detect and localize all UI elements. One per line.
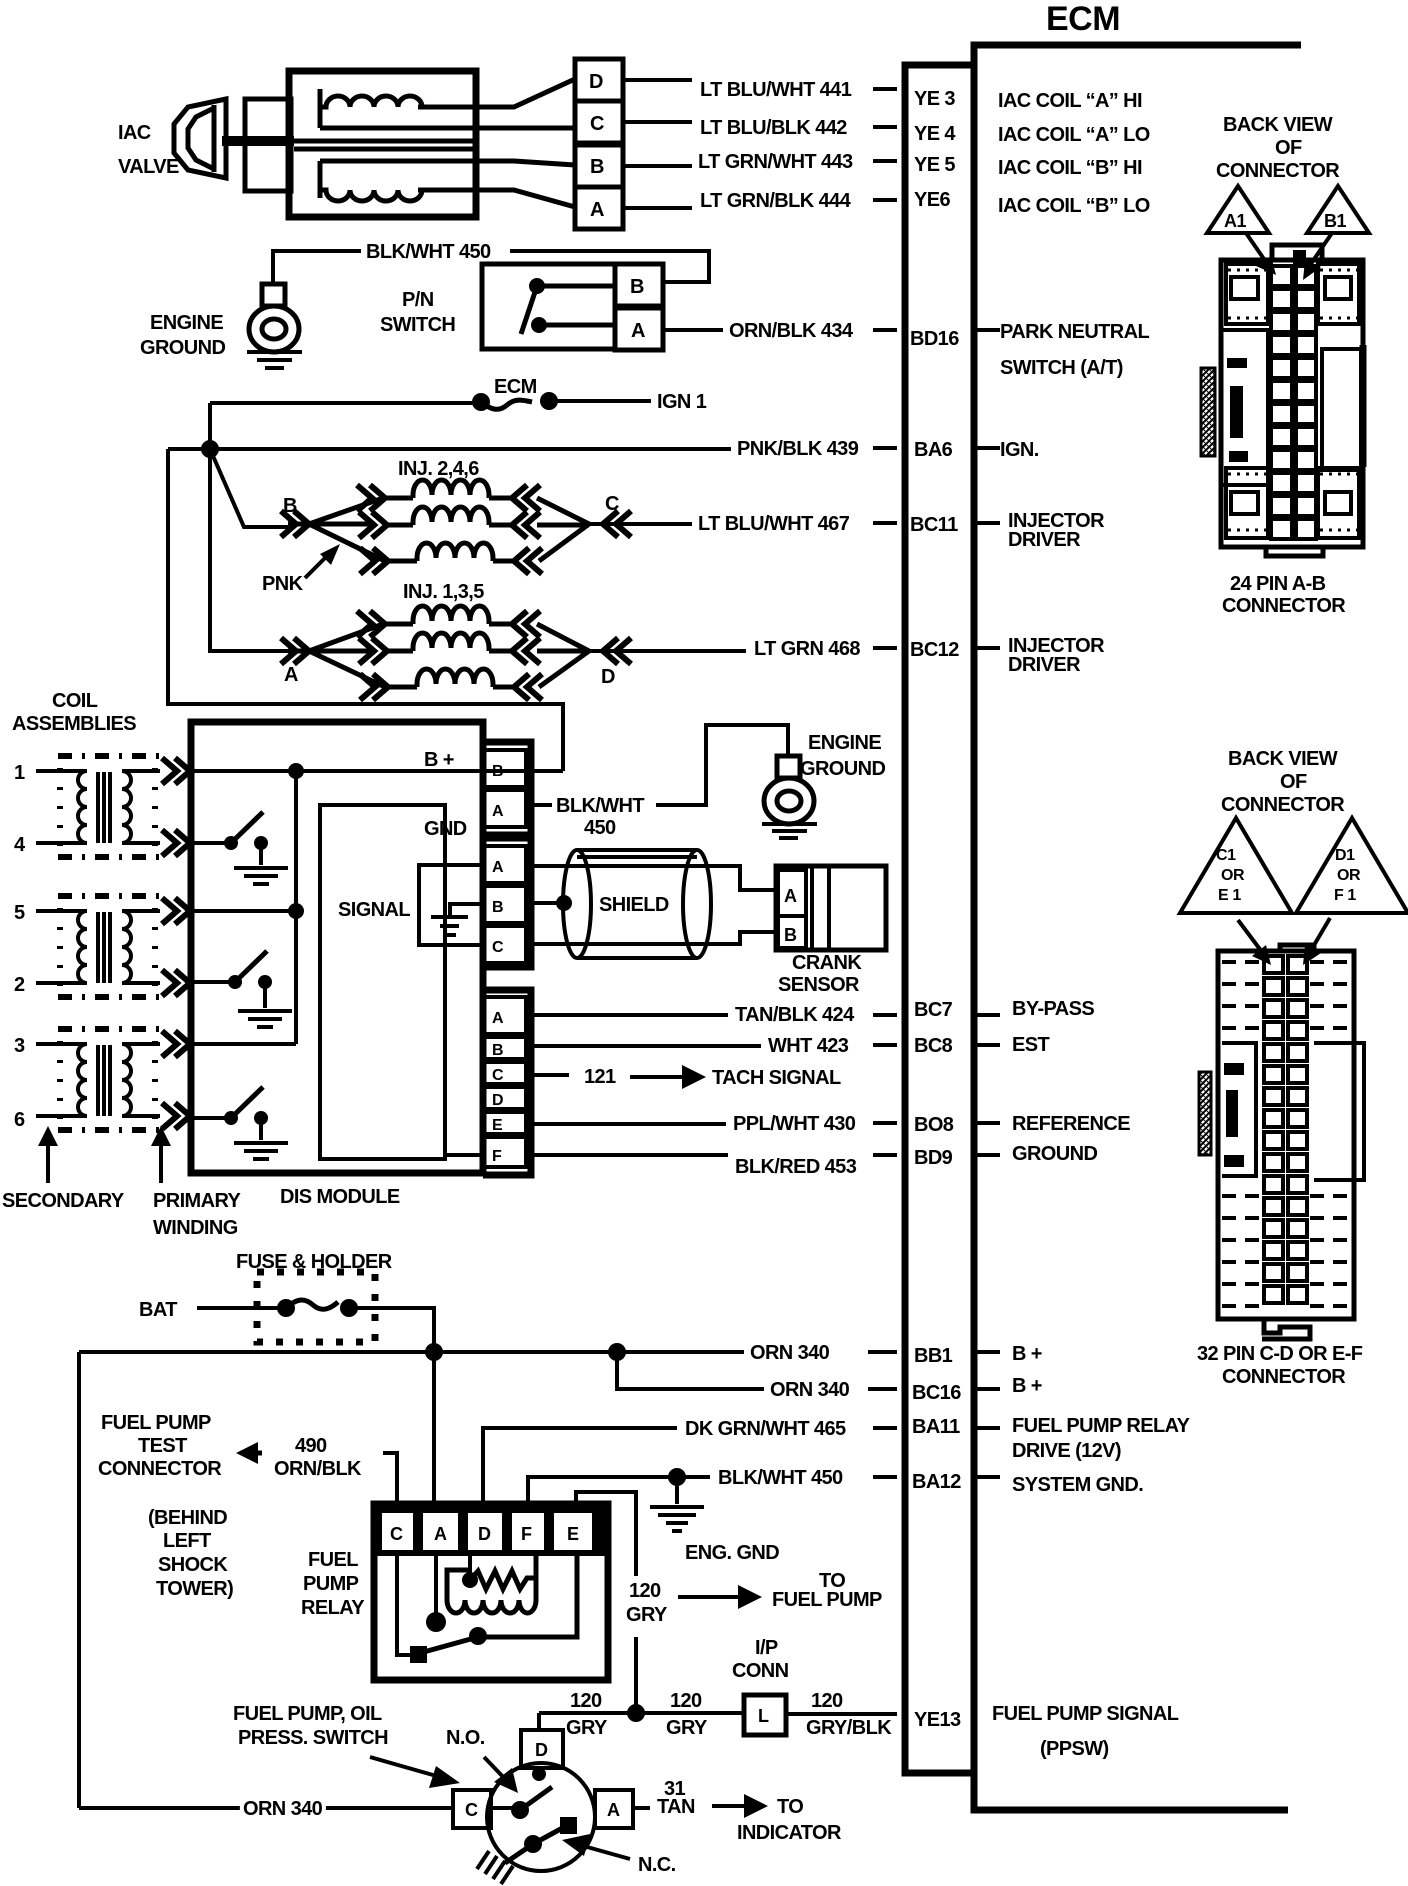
svg-text:F: F xyxy=(521,1524,532,1544)
svg-text:DRIVER: DRIVER xyxy=(1008,654,1081,676)
wire C xyxy=(476,126,575,131)
svg-text:PUMP: PUMP xyxy=(303,1573,359,1595)
wire ORN 340 to BB1 xyxy=(79,1350,897,1354)
svg-text:TAN/BLK 424: TAN/BLK 424 xyxy=(735,1004,855,1026)
svg-text:LT GRN/WHT 443: LT GRN/WHT 443 xyxy=(698,151,853,173)
secondary winding xyxy=(78,771,87,843)
transformer coil 1-4 xyxy=(14,756,190,857)
svg-text:L: L xyxy=(758,1706,769,1726)
svg-text:BAT: BAT xyxy=(139,1299,177,1321)
wire LT BLU/WHT 441 xyxy=(623,80,897,89)
svg-text:N.O.: N.O. xyxy=(446,1727,485,1749)
svg-text:A: A xyxy=(284,664,298,686)
svg-text:ORN 340: ORN 340 xyxy=(243,1798,323,1820)
GND inner small box xyxy=(419,865,483,945)
svg-text:D1: D1 xyxy=(1335,847,1355,864)
svg-text:VALVE: VALVE xyxy=(118,156,179,178)
top branch xyxy=(357,485,385,511)
svg-text:GRY: GRY xyxy=(666,1717,708,1739)
svg-text:ORN/BLK: ORN/BLK xyxy=(274,1458,362,1480)
svg-text:SHIELD: SHIELD xyxy=(599,894,669,916)
svg-text:IGN 1: IGN 1 xyxy=(657,391,707,413)
svg-text:GROUND: GROUND xyxy=(140,337,225,359)
A box xyxy=(595,1790,633,1828)
relay interior: switch arm xyxy=(420,1637,478,1653)
svg-text:24 PIN A-B: 24 PIN A-B xyxy=(1230,573,1326,595)
svg-text:ORN 340: ORN 340 xyxy=(770,1379,850,1401)
svg-text:ENGINE: ENGINE xyxy=(150,312,223,334)
fuel pump relay box xyxy=(374,1504,608,1680)
svg-text:B: B xyxy=(630,276,644,298)
primary winding xyxy=(122,771,131,843)
svg-text:YE 5: YE 5 xyxy=(914,154,955,176)
svg-text:B: B xyxy=(784,925,797,945)
pressure switch circle xyxy=(487,1763,595,1871)
fuse & holder dotted box xyxy=(257,1272,375,1342)
svg-text:TACH SIGNAL: TACH SIGNAL xyxy=(712,1067,841,1089)
svg-text:4: 4 xyxy=(14,834,26,856)
svg-text:SENSOR: SENSOR xyxy=(778,974,860,996)
svg-text:32 PIN C-D OR E-F: 32 PIN C-D OR E-F xyxy=(1197,1343,1363,1365)
engine ground symbol 1 xyxy=(262,284,285,306)
ECM box outline xyxy=(974,45,1301,1810)
svg-text:120: 120 xyxy=(570,1690,602,1712)
wire WHT 423 xyxy=(526,1045,897,1046)
hatched strip xyxy=(1201,368,1215,456)
svg-text:D: D xyxy=(601,666,615,688)
svg-text:BC7: BC7 xyxy=(914,999,953,1021)
middle branch xyxy=(359,512,387,538)
wire A to 31 TAN xyxy=(633,1806,650,1810)
relay resistor zigzag xyxy=(470,1571,535,1589)
svg-text:BD16: BD16 xyxy=(910,328,959,350)
svg-text:SIGNAL: SIGNAL xyxy=(338,899,410,921)
relay interior: A contact xyxy=(434,1556,438,1616)
DIS pins B/A group xyxy=(483,742,531,835)
triangle A1 xyxy=(1207,186,1269,233)
svg-text:BACK VIEW: BACK VIEW xyxy=(1223,114,1333,136)
svg-text:450: 450 xyxy=(584,817,616,839)
B+ bus vertical xyxy=(191,771,296,1044)
relay interior: coil D-F xyxy=(468,1552,472,1578)
IAC connector box D xyxy=(575,59,623,101)
svg-text:LT BLU/WHT 441: LT BLU/WHT 441 xyxy=(700,79,852,101)
switch N.C. contact xyxy=(524,1835,542,1853)
svg-text:5: 5 xyxy=(14,902,25,924)
wire LT GRN 468 xyxy=(589,648,897,651)
wire left vertical B+ loop xyxy=(168,449,563,771)
svg-text:D: D xyxy=(535,1740,548,1760)
svg-text:A1: A1 xyxy=(1224,211,1246,231)
svg-text:OR: OR xyxy=(1221,867,1245,884)
svg-text:C: C xyxy=(492,939,504,956)
right side block xyxy=(1322,349,1361,470)
svg-text:DRIVER: DRIVER xyxy=(1008,529,1081,551)
svg-text:BLK/WHT 450: BLK/WHT 450 xyxy=(366,241,491,263)
svg-text:YE 4: YE 4 xyxy=(914,123,956,145)
DIS pins A-F group xyxy=(483,990,531,1175)
svg-text:LEFT: LEFT xyxy=(163,1530,211,1552)
svg-text:DIS MODULE: DIS MODULE xyxy=(280,1186,400,1208)
svg-text:BB1: BB1 xyxy=(914,1345,953,1367)
svg-text:121: 121 xyxy=(584,1066,616,1088)
left rail vertical xyxy=(77,1352,81,1808)
IAC connector box B xyxy=(575,145,623,187)
wire B xyxy=(476,161,575,165)
wire relay A up to ORN340 xyxy=(432,1352,436,1506)
center pin columns xyxy=(1271,266,1316,539)
bottom foot xyxy=(1262,1319,1310,1339)
svg-text:GRY: GRY xyxy=(566,1717,608,1739)
svg-text:ECM: ECM xyxy=(494,376,537,398)
D box xyxy=(521,1730,563,1768)
svg-text:OF: OF xyxy=(1275,137,1302,159)
svg-text:120: 120 xyxy=(811,1690,843,1712)
wire crank B shield drain xyxy=(531,901,562,905)
svg-text:N.C.: N.C. xyxy=(638,1854,676,1876)
svg-text:D: D xyxy=(492,1092,503,1109)
svg-text:BC11: BC11 xyxy=(910,514,958,536)
svg-text:ASSEMBLIES: ASSEMBLIES xyxy=(12,713,136,735)
svg-text:ORN 340: ORN 340 xyxy=(750,1342,830,1364)
svg-text:IAC COIL “A” HI: IAC COIL “A” HI xyxy=(998,90,1142,112)
svg-text:OR: OR xyxy=(1337,867,1361,884)
wire BLK/WHT 450 xyxy=(273,251,709,286)
svg-text:BC12: BC12 xyxy=(910,639,959,661)
24-pin connector body xyxy=(1201,245,1363,556)
wire 121 TACH SIGNAL xyxy=(531,1073,569,1077)
wire PNK/BLK 439 xyxy=(168,403,897,449)
svg-text:B: B xyxy=(492,899,503,916)
svg-text:FUEL: FUEL xyxy=(308,1549,358,1571)
core xyxy=(98,772,110,843)
wire BLK/WHT 450 to engine ground 2 xyxy=(531,725,788,805)
wire BAT through fuse xyxy=(197,1308,434,1352)
svg-text:OF: OF xyxy=(1280,771,1307,793)
svg-text:PRIMARY: PRIMARY xyxy=(153,1190,242,1212)
svg-text:LT BLU/WHT 467: LT BLU/WHT 467 xyxy=(698,513,850,535)
svg-text:FUEL PUMP, OIL: FUEL PUMP, OIL xyxy=(233,1703,382,1725)
svg-text:PNK/BLK 439: PNK/BLK 439 xyxy=(737,438,859,460)
IAC upper coil channel line xyxy=(320,126,476,131)
IAC valve cone xyxy=(174,99,226,178)
dash-dot border xyxy=(58,756,159,857)
svg-text:BA6: BA6 xyxy=(914,439,953,461)
injector group INJ. 2,4,6 xyxy=(281,458,631,574)
N.C. label with arrow xyxy=(580,1845,630,1859)
switch N.O. contact xyxy=(511,1801,529,1819)
transformer coil 3-6 xyxy=(36,1029,190,1130)
svg-text:TO: TO xyxy=(777,1796,803,1818)
svg-text:SWITCH: SWITCH xyxy=(380,314,455,336)
svg-text:D: D xyxy=(589,71,603,93)
svg-text:BC8: BC8 xyxy=(914,1035,953,1057)
svg-text:A: A xyxy=(492,859,504,876)
DIS pins A/B/C group xyxy=(483,838,531,967)
IAC lower coil xyxy=(320,161,422,201)
svg-text:GROUND: GROUND xyxy=(1012,1143,1097,1165)
svg-text:BA11: BA11 xyxy=(912,1416,960,1438)
svg-text:B +: B + xyxy=(1012,1343,1042,1365)
wire PPL/WHT 430 xyxy=(526,1123,897,1124)
svg-text:B: B xyxy=(492,763,503,780)
svg-text:ORN/BLK 434: ORN/BLK 434 xyxy=(729,320,854,342)
svg-text:B1: B1 xyxy=(1324,211,1346,231)
svg-text:GRY: GRY xyxy=(626,1604,668,1626)
svg-text:IAC: IAC xyxy=(118,122,151,144)
svg-text:BD9: BD9 xyxy=(914,1147,953,1169)
svg-text:IAC COIL “A” LO: IAC COIL “A” LO xyxy=(998,124,1150,146)
TO FUEL PUMP arrow xyxy=(678,1595,742,1599)
svg-text:I/P: I/P xyxy=(755,1637,778,1659)
svg-text:C1: C1 xyxy=(1216,847,1236,864)
svg-text:INJ. 2,4,6: INJ. 2,4,6 xyxy=(398,458,479,480)
switch 1 xyxy=(191,841,231,845)
svg-text:E: E xyxy=(567,1524,579,1544)
svg-text:A: A xyxy=(631,320,645,342)
svg-text:CONNECTOR: CONNECTOR xyxy=(1221,794,1345,816)
hatched strip xyxy=(1199,1072,1211,1155)
svg-text:1: 1 xyxy=(14,762,25,784)
junction IGN/PNK xyxy=(201,440,219,458)
wire TAN/BLK 424 xyxy=(526,1013,897,1017)
svg-text:SYSTEM GND.: SYSTEM GND. xyxy=(1012,1474,1143,1496)
svg-text:C: C xyxy=(492,1067,504,1084)
svg-text:FUEL PUMP SIGNAL: FUEL PUMP SIGNAL xyxy=(992,1703,1179,1725)
svg-text:2: 2 xyxy=(14,974,25,996)
svg-text:ECM: ECM xyxy=(1046,0,1120,38)
svg-text:LT BLU/BLK 442: LT BLU/BLK 442 xyxy=(700,117,847,139)
svg-text:IGN.: IGN. xyxy=(1000,439,1039,461)
svg-text:B +: B + xyxy=(1012,1375,1042,1397)
wire LT BLU/BLK 442 xyxy=(623,122,897,127)
C box xyxy=(453,1790,491,1828)
svg-text:FUEL PUMP RELAY: FUEL PUMP RELAY xyxy=(1012,1415,1191,1437)
wire ORN 340 to BC16 xyxy=(617,1352,897,1389)
svg-text:CONNECTOR: CONNECTOR xyxy=(1222,1366,1346,1388)
relay pin header bar xyxy=(374,1501,608,1556)
svg-text:TEST: TEST xyxy=(138,1435,187,1457)
svg-text:BC16: BC16 xyxy=(912,1382,961,1404)
relay interior: E leg xyxy=(478,1556,577,1637)
svg-text:GROUND: GROUND xyxy=(800,758,885,780)
svg-text:C: C xyxy=(590,113,604,135)
shield cylinder xyxy=(577,850,697,958)
svg-text:TOWER): TOWER) xyxy=(156,1578,233,1600)
svg-text:PPL/WHT 430: PPL/WHT 430 xyxy=(733,1113,856,1135)
relay coil xyxy=(447,1552,536,1600)
svg-text:ENG. GND: ENG. GND xyxy=(685,1542,779,1564)
svg-text:INDICATOR: INDICATOR xyxy=(737,1822,842,1844)
wire BLK/WHT 450 to BA12 xyxy=(528,1477,897,1504)
svg-text:SHOCK: SHOCK xyxy=(158,1554,228,1576)
svg-text:B +: B + xyxy=(424,749,454,771)
svg-text:BA12: BA12 xyxy=(912,1471,961,1493)
svg-text:BY-PASS: BY-PASS xyxy=(1012,998,1094,1020)
svg-text:SECONDARY: SECONDARY xyxy=(2,1190,125,1212)
svg-text:TAN: TAN xyxy=(657,1796,695,1818)
transformer coil 5-2 xyxy=(36,896,190,997)
relay interior: C leg xyxy=(397,1556,413,1655)
svg-text:CONNECTOR: CONNECTOR xyxy=(1216,160,1340,182)
IAC connector box A xyxy=(575,187,623,229)
svg-text:PRESS. SWITCH: PRESS. SWITCH xyxy=(238,1727,388,1749)
triangle C1/E1 xyxy=(1180,818,1292,913)
svg-text:REFERENCE: REFERENCE xyxy=(1012,1113,1130,1135)
svg-text:C: C xyxy=(390,1524,403,1544)
svg-text:EST: EST xyxy=(1012,1034,1049,1056)
svg-text:A: A xyxy=(784,886,797,906)
P/N connector box A xyxy=(615,308,663,350)
svg-text:BLK/WHT 450: BLK/WHT 450 xyxy=(718,1467,843,1489)
IAC valve shaft xyxy=(222,136,294,146)
svg-text:B: B xyxy=(492,1042,503,1059)
svg-text:PNK: PNK xyxy=(262,573,304,595)
wire A xyxy=(418,190,575,207)
svg-text:RELAY: RELAY xyxy=(301,1597,365,1619)
svg-text:WHT 423: WHT 423 xyxy=(768,1035,849,1057)
svg-text:PARK NEUTRAL: PARK NEUTRAL xyxy=(1000,321,1149,343)
svg-text:IAC COIL “B” HI: IAC COIL “B” HI xyxy=(998,157,1142,179)
wire D up to 120 GRY xyxy=(537,1713,541,1730)
wire L to YE13 xyxy=(786,1712,897,1716)
crank sensor connector xyxy=(776,866,886,950)
middle left details xyxy=(1221,330,1268,485)
svg-text:120: 120 xyxy=(629,1580,661,1602)
triangle D1/F1 xyxy=(1296,818,1408,913)
svg-text:F: F xyxy=(492,1148,502,1165)
svg-text:GRY/BLK: GRY/BLK xyxy=(806,1717,892,1739)
svg-text:6: 6 xyxy=(14,1109,25,1131)
right apex chevron xyxy=(603,511,631,537)
wire 120 GRY junction to L xyxy=(539,1711,744,1715)
svg-text:BLK/RED 453: BLK/RED 453 xyxy=(735,1156,857,1178)
svg-text:A: A xyxy=(434,1524,447,1544)
svg-text:A: A xyxy=(492,803,504,820)
svg-text:120: 120 xyxy=(670,1690,702,1712)
svg-text:CRANK: CRANK xyxy=(792,952,862,974)
left arrow xyxy=(243,1451,262,1456)
wire crank C xyxy=(531,932,778,944)
svg-text:C: C xyxy=(465,1800,478,1820)
svg-text:ENGINE: ENGINE xyxy=(808,732,881,754)
wire LT BLU/WHT 467 xyxy=(589,523,897,524)
switch 2 xyxy=(191,980,235,984)
middle left block xyxy=(1222,1043,1256,1176)
svg-text:F 1: F 1 xyxy=(1334,887,1356,904)
dashes top left/right xyxy=(1222,962,1350,1306)
svg-text:(BEHIND: (BEHIND xyxy=(148,1507,227,1529)
wire BLK/RED 453 xyxy=(445,1153,897,1157)
svg-text:A: A xyxy=(590,199,604,221)
svg-text:WINDING: WINDING xyxy=(153,1217,238,1239)
P/N switch contacts xyxy=(529,278,545,294)
I/P connector box L xyxy=(744,1695,786,1735)
svg-text:LT GRN/BLK 444: LT GRN/BLK 444 xyxy=(700,190,852,212)
svg-text:LT GRN 468: LT GRN 468 xyxy=(754,638,860,660)
wire LT GRN/WHT 443 xyxy=(623,161,897,166)
wire coil D xyxy=(418,79,575,107)
svg-text:B: B xyxy=(590,156,604,178)
svg-text:A: A xyxy=(492,1010,504,1027)
IAC lower coil channel line xyxy=(320,159,476,164)
center pin columns xyxy=(1264,956,1307,1303)
svg-text:SWITCH (A/T): SWITCH (A/T) xyxy=(1000,357,1123,379)
wire 490 to relay C xyxy=(383,1453,397,1506)
svg-text:BLK/WHT: BLK/WHT xyxy=(556,795,644,817)
DIS module box xyxy=(191,722,483,1173)
IAC connector box C xyxy=(575,101,623,143)
svg-text:E 1: E 1 xyxy=(1218,887,1241,904)
svg-text:COIL: COIL xyxy=(52,690,98,712)
wire E to 120 GRY vertical xyxy=(576,1492,636,1713)
svg-text:490: 490 xyxy=(295,1435,327,1457)
IAC center pole bars xyxy=(226,141,476,149)
triangle arrows 2 xyxy=(1238,920,1262,952)
left apex lines xyxy=(288,498,385,561)
hatching xyxy=(477,1851,513,1884)
svg-text:3: 3 xyxy=(14,1035,25,1057)
svg-text:P/N: P/N xyxy=(402,289,434,311)
ECM pin column xyxy=(905,65,974,1773)
bottom branch xyxy=(360,548,388,574)
P/N connector box B xyxy=(615,264,663,306)
wire crank A xyxy=(531,866,778,890)
wire IGN 1 with ECM fuse xyxy=(210,401,651,403)
svg-text:YE 3: YE 3 xyxy=(914,88,955,110)
svg-text:BACK VIEW: BACK VIEW xyxy=(1228,748,1338,770)
wire ORN 340 bottom xyxy=(79,1806,453,1810)
switch 3 xyxy=(191,1116,231,1120)
IAC valve body large rect xyxy=(289,71,476,217)
svg-text:FUEL PUMP: FUEL PUMP xyxy=(772,1589,882,1611)
svg-text:YE13: YE13 xyxy=(914,1709,961,1731)
svg-text:(PPSW): (PPSW) xyxy=(1040,1738,1109,1760)
wire from junction to injector B apex xyxy=(210,449,288,527)
svg-text:E: E xyxy=(492,1117,503,1134)
wire vertical to injector A apex xyxy=(210,449,288,651)
svg-text:BO8: BO8 xyxy=(914,1114,954,1136)
P/N switch box xyxy=(482,264,615,349)
IAC upper coil xyxy=(320,89,422,128)
svg-text:DRIVE (12V): DRIVE (12V) xyxy=(1012,1440,1121,1462)
svg-text:CONNECTOR: CONNECTOR xyxy=(98,1458,222,1480)
triangle arrows xyxy=(1246,233,1266,262)
B+ bus wire xyxy=(191,769,483,773)
svg-text:DK GRN/WHT 465: DK GRN/WHT 465 xyxy=(685,1418,846,1440)
triangle B1 xyxy=(1307,186,1369,233)
svg-text:YE6: YE6 xyxy=(914,189,950,211)
right side block xyxy=(1314,1043,1364,1180)
svg-text:IAC COIL “B” LO: IAC COIL “B” LO xyxy=(998,195,1150,217)
IAC valve body small rect xyxy=(245,99,291,191)
32-pin connector body xyxy=(1199,945,1364,1339)
svg-text:CONNECTOR: CONNECTOR xyxy=(1222,595,1346,617)
svg-text:A: A xyxy=(607,1800,620,1820)
svg-text:FUEL PUMP: FUEL PUMP xyxy=(101,1412,211,1434)
SIGNAL inner box xyxy=(320,805,445,1159)
svg-text:CONN: CONN xyxy=(732,1660,789,1682)
svg-text:D: D xyxy=(478,1524,491,1544)
wire ORN/BLK 434 xyxy=(663,328,897,332)
wire LT GRN/BLK 444 xyxy=(623,200,897,208)
wire DK GRN/WHT 465 xyxy=(483,1428,897,1504)
svg-text:INJ. 1,3,5: INJ. 1,3,5 xyxy=(403,581,484,603)
injector group INJ. 1,3,5 xyxy=(281,581,631,700)
